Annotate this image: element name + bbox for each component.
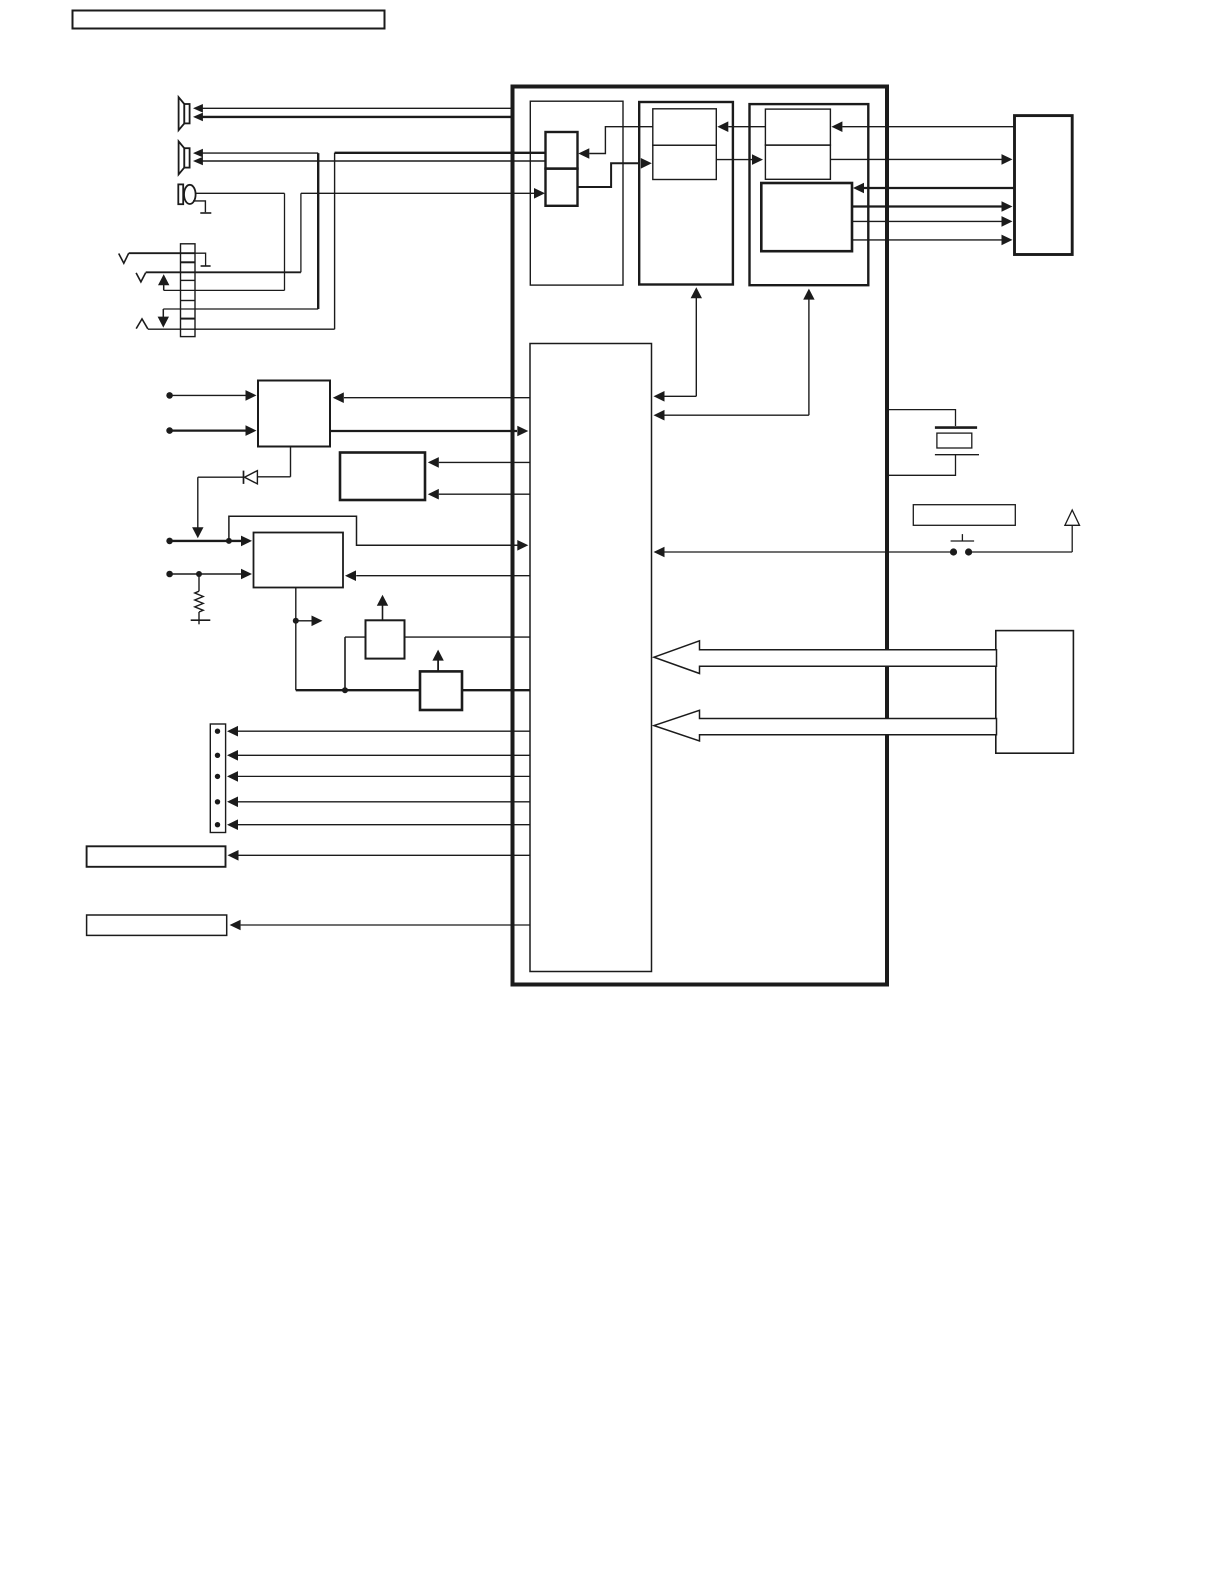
wire jack pin2 (thick) [146,271,301,273]
sub-block RF interface section [750,104,869,285]
connector CN1 [210,724,225,833]
supply symbol triangle [1065,510,1080,525]
wire CPU to L1 [228,850,531,861]
speaker SP2 (receiver) [179,141,190,174]
wire MIC output [196,192,285,194]
wire A to CPU (thick) [330,426,528,437]
arrow up at pin3 [158,274,169,290]
wire amp to codec lower [578,158,652,187]
wire A bottom [257,447,290,477]
IC U1 main block outline [513,87,888,985]
wire xtal top [887,410,956,426]
wire D line [345,636,530,638]
diode D1 [244,471,258,484]
wire into A2 (thick) [170,425,257,436]
wire into A1 [170,390,257,401]
arrow into SP1 upper [193,104,203,113]
wire rf to serial [830,154,1012,165]
wire CPU to B upper [428,457,530,468]
arrow up from D [377,595,388,621]
block M memory [996,631,1074,754]
block C [254,533,344,588]
wire rf to codec upper [717,121,765,132]
wire key row1 (thick) [170,536,252,547]
wire key to supply [969,525,1073,552]
CN1 pin1 node [215,729,220,734]
wire CPU to CN1 pin4 [227,797,530,808]
CPU tall box [530,344,652,972]
wire jack pin5 [148,328,335,330]
MIC ground stub [193,201,211,213]
node key row2 [166,571,173,578]
arrow into SP2 upper [193,149,203,158]
bus CPU-codec [654,287,703,401]
wire serial to modem (thick) [853,183,1015,194]
junction row1 [226,538,232,544]
connector J1 right box [1015,116,1073,255]
title box [73,11,385,29]
wire CPU to C [345,570,530,581]
wire CPU to CN1 pin1 [227,726,530,737]
rf lower box [765,145,830,179]
node in A2 [166,427,173,434]
net caret mark [136,319,148,329]
jack pin1 ground [195,253,211,266]
wire SP1 lower from IC (thick) [203,116,513,118]
ground R1 [191,619,211,621]
wire CPU to CN1 pin5 [227,819,530,830]
wire diode to key line [192,477,243,538]
rf upper box [765,109,830,145]
wire CPU to CN1 pin3 [227,771,530,782]
wire jack pin1 (thick) [129,252,195,254]
bus CPU-rf [654,289,815,421]
wire SP2 lower to amp box [203,160,546,162]
junction bus [342,687,348,693]
wire jack pin4 [163,308,318,310]
block E [420,671,462,710]
wire serial to rf upper [831,121,1014,132]
wire CPU to B lower [428,489,530,500]
net V2 mark [136,273,146,282]
microphone MIC [178,184,195,204]
block B [340,453,425,501]
net V1 mark [119,253,129,263]
wire codec to amp upper [578,127,653,159]
arrow into SP2 lower [193,157,203,166]
arrow into amp lower box [534,188,545,199]
wire riser to D [344,637,346,690]
bus arrow 2 [654,710,997,741]
CN1 pin3 node [215,774,220,779]
bus arrow 1 [654,641,997,674]
wire key row2 [170,569,252,580]
wire row1 jog over C [229,516,528,550]
amp stage upper box [546,132,578,169]
arrow down at pin4 [158,309,169,328]
junction row2 [196,571,202,577]
arrow into SP1 lower [193,113,203,122]
wire SP1 upper from IC [203,107,513,109]
crystal X1 [935,428,979,455]
amp stage lower box [546,169,578,206]
junction C bottom [293,618,299,624]
rf modem box [761,183,852,251]
block A [258,381,330,447]
block L1 [87,846,226,867]
node key row1 [166,538,173,545]
CN1 pin5 node [215,822,220,827]
wire pin2 riser to MIC line [300,193,302,272]
jack connector strip [181,244,196,337]
wire pin4 riser to SP2 (thick) [317,153,319,309]
wire C bottom [295,588,297,691]
wire SP2 upper [203,152,319,154]
speaker SP1 [179,97,190,130]
wire codec to rf lower [716,154,763,165]
wire modem out1 (thick) [852,201,1013,212]
wire jack pin3 [164,289,285,291]
wire jack to amp box (thick) [335,152,546,154]
sub-block audio amp section [530,101,623,285]
arrow stub right [296,616,323,627]
codec upper box [653,109,717,145]
codec lower box [653,145,717,179]
resistor R1 [195,574,203,624]
wire CPU to L2 [230,920,530,931]
wire modem out2 [852,216,1013,227]
wire pin5 riser [334,153,336,329]
CN1 pin4 node [215,799,220,804]
wire xtal bottom [887,455,956,476]
block D [366,620,405,658]
wire CPU to A [333,392,530,403]
block L2 [87,915,227,935]
label box [913,505,1015,526]
switch SW1 [950,534,974,556]
arrow up from E [432,650,443,672]
node in A1 [166,392,173,399]
wire bus to E (thick) [296,689,530,691]
wire MIC drop to pin3 [284,193,286,290]
wire modem out3 [852,235,1013,246]
wire key line [654,547,951,558]
wire CPU to CN1 pin2 [227,750,530,761]
CN1 pin2 node [215,753,220,758]
sub-block codec section [639,102,733,285]
wire MIC line to amp with arrow [301,192,534,194]
